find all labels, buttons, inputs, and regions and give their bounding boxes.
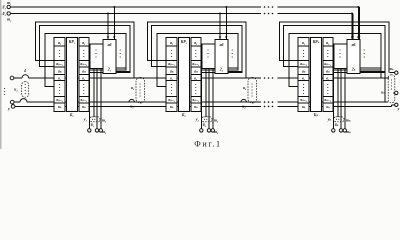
block-bottom corner wires <box>228 67 238 69</box>
svg-text:аₙ₋₁: аₙ₋₁ <box>300 62 307 66</box>
svg-text:вₙ₋₁: вₙ₋₁ <box>193 98 200 102</box>
input terminal L1 <box>7 5 10 8</box>
svg-text:вₙ: вₙ <box>82 105 86 109</box>
input terminal L2 <box>7 12 10 15</box>
svg-text:и₁: и₁ <box>14 88 17 92</box>
column dots <box>83 50 84 51</box>
svg-text:Л₂: Л₂ <box>1 12 7 16</box>
block Iₙ dots <box>339 49 340 50</box>
svg-text:тₙ: тₙ <box>389 67 394 71</box>
cell 2 innermost wire loop <box>157 33 238 86</box>
commutator column KP₁ <box>66 38 77 112</box>
bus right-end drops into cell n <box>358 7 360 39</box>
svg-text:вₙ₋₁: вₙ₋₁ <box>300 98 307 102</box>
svg-text:вₙ: вₙ <box>170 105 174 109</box>
svg-text:а₁: а₁ <box>302 41 305 45</box>
left dashed cable capsule <box>22 82 29 98</box>
register column A₂ <box>166 38 177 112</box>
svg-text:тₙ: тₙ <box>346 130 351 134</box>
commutator column KPₙ <box>310 38 321 112</box>
svg-text:бₙ: бₙ <box>335 123 339 127</box>
block I₁ dots <box>95 49 96 50</box>
svg-text:КР₁: КР₁ <box>68 40 75 44</box>
svg-text:аₙ: аₙ <box>58 70 62 74</box>
junction dots on buses <box>107 13 109 15</box>
cell 1 outer feedback wire loop <box>36 22 135 78</box>
cell n inner loop drop to lower wire <box>384 72 386 102</box>
right terminal 3 <box>391 105 393 107</box>
dashed selector capsule at bottom <box>334 117 344 122</box>
output stem wires to bottom terminals <box>200 69 202 129</box>
bus drop wires into block 2₂ with arrows <box>219 14 221 40</box>
junction dots on innermost loop top <box>219 33 221 35</box>
svg-text:аₙ₋₁: аₙ₋₁ <box>324 62 331 66</box>
cell 3 inner feedback wire loop <box>284 26 386 73</box>
register column B₂ <box>191 38 201 112</box>
svg-text:2₂: 2₂ <box>219 68 224 72</box>
wire break dots between cell 2 and cell n <box>264 77 266 79</box>
svg-text:тₙ: тₙ <box>346 118 351 122</box>
element block 2₁ <box>103 40 116 74</box>
svg-text:т₁: т₁ <box>102 118 106 122</box>
column dots <box>327 50 328 51</box>
element block 2₂ <box>215 40 228 74</box>
cell 1 inner feedback wire loop <box>40 26 131 73</box>
right dashed cable capsule <box>388 75 395 103</box>
column cell dividers <box>166 45 177 47</box>
svg-text:т₁: т₁ <box>7 1 11 5</box>
svg-text:б₁: б₁ <box>91 123 94 127</box>
svg-text:а₁: а₁ <box>194 41 197 45</box>
left terminal d2 <box>10 100 14 104</box>
block I₂ dots <box>207 49 208 50</box>
svg-text:у: у <box>397 107 400 111</box>
left terminal y <box>11 105 15 109</box>
svg-text:а₁: а₁ <box>82 41 85 45</box>
svg-text:вₙ: вₙ <box>194 105 198 109</box>
dashed selector capsule at bottom <box>202 117 212 122</box>
svg-text:у: у <box>7 107 10 111</box>
long wire y106.4 <box>15 105 261 107</box>
svg-text:аₙ₋₁: аₙ₋₁ <box>56 62 63 66</box>
bottom terminal circles <box>200 129 203 132</box>
svg-text:аₙ₋₁: аₙ₋₁ <box>80 62 87 66</box>
svg-text:в₁: в₁ <box>326 77 329 81</box>
column dots <box>303 50 304 51</box>
svg-text:т₂: т₂ <box>7 18 12 22</box>
wires under block Iₙ <box>333 69 381 71</box>
register column Aₙ <box>298 38 309 112</box>
svg-text:аₙ: аₙ <box>170 70 174 74</box>
upper bus wire <box>10 6 261 8</box>
svg-text:вₙ: вₙ <box>58 105 62 109</box>
svg-text:КРₙ: КРₙ <box>312 40 320 44</box>
svg-text:вₙ: вₙ <box>326 105 330 109</box>
svg-text:2₁: 2₁ <box>107 68 111 72</box>
output stem wires to bottom terminals <box>332 69 334 129</box>
column dots <box>171 50 172 51</box>
svg-text:Б₂: Б₂ <box>181 113 186 117</box>
register column B₁ <box>79 38 89 112</box>
cell 2 outer feedback wire loop <box>148 22 247 78</box>
dashed selector capsule at bottom <box>90 117 100 122</box>
junction dots on buses <box>219 13 221 15</box>
cell 3 outer feedback wire loop <box>280 22 390 73</box>
dots right of block 2ₙ <box>364 49 365 50</box>
wires under block I₁ <box>89 69 126 71</box>
left edge dots <box>4 88 5 89</box>
svg-text:в₁: в₁ <box>194 77 197 81</box>
bus break dots <box>264 6 266 8</box>
cell 1 innermost wire loop <box>45 33 126 86</box>
bus drop wires into block 2ₙ with arrows <box>351 14 353 40</box>
svg-text:т₂: т₂ <box>214 130 219 134</box>
small block I₁ <box>90 44 103 68</box>
svg-text:и₁: и₁ <box>130 105 133 109</box>
svg-text:а₁: а₁ <box>170 41 173 45</box>
column cell dividers <box>298 45 309 47</box>
wire hop arc <box>241 99 246 102</box>
column cell dividers <box>191 45 201 47</box>
svg-text:КР₂: КР₂ <box>180 40 188 44</box>
svg-text:в₁: в₁ <box>170 77 173 81</box>
svg-text:аₙ: аₙ <box>194 70 198 74</box>
svg-text:аₙ: аₙ <box>302 70 306 74</box>
block-bottom corner wires <box>116 67 126 69</box>
junction dots on innermost loop top <box>107 33 109 35</box>
svg-text:т₂: т₂ <box>214 118 219 122</box>
scan edge artifact <box>0 0 1 149</box>
svg-text:кₙ: кₙ <box>381 91 385 95</box>
cell 3 innermost wire loop <box>289 33 381 86</box>
svg-text:вₙ₋₁: вₙ₋₁ <box>168 98 175 102</box>
svg-text:уₙ: уₙ <box>327 117 332 121</box>
svg-text:а₁: а₁ <box>326 41 329 45</box>
svg-text:аₙ₋₁: аₙ₋₁ <box>168 62 175 66</box>
column cell dividers <box>79 45 89 47</box>
svg-text:в₁: в₁ <box>302 77 305 81</box>
svg-text:вₙ₋₁: вₙ₋₁ <box>81 98 88 102</box>
dashed cable capsule to next cell <box>248 78 257 104</box>
svg-text:т₁: т₁ <box>102 130 106 134</box>
right terminal 1 <box>390 72 395 74</box>
svg-text:Бₙ: Бₙ <box>313 113 318 117</box>
column dots <box>195 50 196 51</box>
wires under block I₂ <box>201 69 238 71</box>
output stem wires to bottom terminals <box>88 69 90 129</box>
svg-text:Б₁: Б₁ <box>69 113 74 117</box>
svg-text:аₙ₋₁: аₙ₋₁ <box>192 62 199 66</box>
small block I₂ <box>202 44 215 68</box>
svg-text:2ₙ: 2ₙ <box>351 68 356 72</box>
svg-text:вₙ₋₁: вₙ₋₁ <box>56 98 63 102</box>
long wire y102.1 <box>14 101 20 103</box>
register column Bₙ <box>323 38 333 112</box>
svg-text:4: 4 <box>23 69 26 73</box>
junction dots on buses <box>351 13 353 15</box>
svg-text:и₁: и₁ <box>131 86 134 90</box>
bus drop wires into block 2₁ with arrows <box>107 14 109 40</box>
commutator column KP₂ <box>178 38 189 112</box>
long wire y78 from terminal <box>14 77 22 79</box>
left terminal d1 <box>10 76 14 80</box>
column cell dividers <box>54 45 65 47</box>
svg-text:в₁: в₁ <box>82 77 85 81</box>
svg-text:Фиг.1: Фиг.1 <box>194 139 221 148</box>
svg-text:аₙ: аₙ <box>82 70 86 74</box>
block-bottom corner wires <box>360 67 381 69</box>
register column A₁ <box>54 38 65 112</box>
dashed cable capsule to next cell <box>136 78 145 104</box>
column dots <box>59 50 60 51</box>
dots right of block 2₂ <box>232 49 233 50</box>
dots right of block 2₁ <box>120 49 121 50</box>
right terminal 2 <box>393 92 395 94</box>
lower bus wire <box>10 13 261 15</box>
element block 2ₙ <box>347 40 360 74</box>
svg-text:вₙ: вₙ <box>302 105 306 109</box>
svg-text:а₁: а₁ <box>58 41 61 45</box>
svg-text:в₁: в₁ <box>58 77 61 81</box>
bottom terminal circles <box>332 129 335 132</box>
svg-text:аₙ: аₙ <box>326 70 330 74</box>
svg-text:у₁: у₁ <box>83 117 87 121</box>
small block Iₙ <box>334 44 347 68</box>
bottom terminal circles <box>88 129 91 132</box>
wire hop arc <box>129 99 134 102</box>
svg-text:вₙ₋₁: вₙ₋₁ <box>325 98 332 102</box>
cell 2 inner feedback wire loop <box>152 26 243 73</box>
junction dots on innermost loop top <box>351 33 353 35</box>
cell n innermost loop drop to wire y78 <box>380 70 382 78</box>
svg-text:у₂: у₂ <box>195 117 200 121</box>
column cell dividers <box>323 45 333 47</box>
svg-text:Л₁: Л₁ <box>1 6 6 10</box>
